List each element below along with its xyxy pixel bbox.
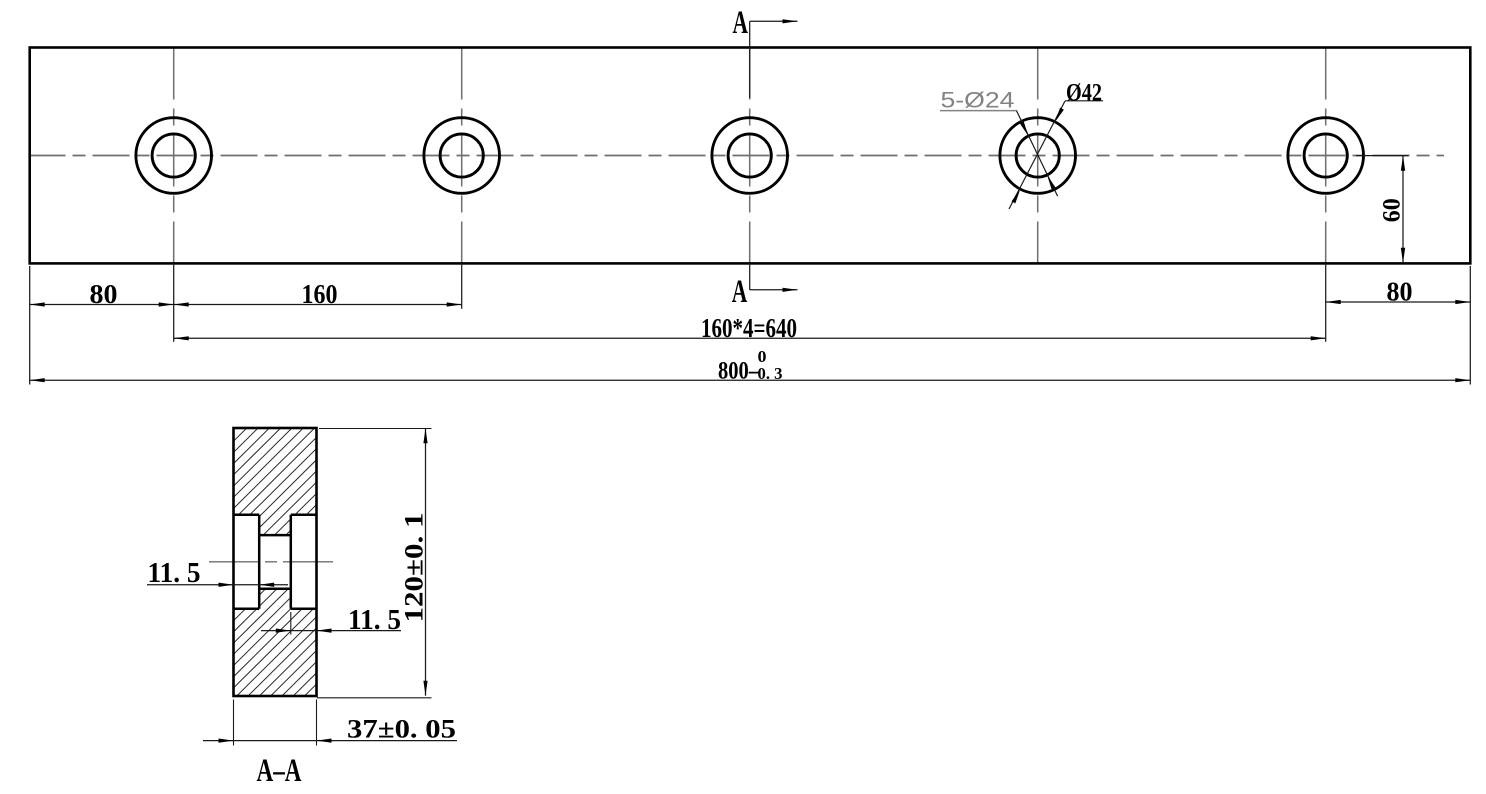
svg-text:80: 80	[1387, 277, 1413, 307]
svg-text:80: 80	[90, 279, 118, 309]
svg-text:Ø42: Ø42	[1066, 80, 1102, 107]
svg-text:11. 5: 11. 5	[348, 605, 401, 636]
svg-text:800–: 800–	[718, 357, 759, 384]
svg-text:160: 160	[302, 279, 338, 309]
svg-text:A–A: A–A	[257, 753, 302, 789]
svg-text:11. 5: 11. 5	[148, 558, 201, 589]
svg-text:A: A	[732, 274, 748, 310]
svg-text:160*4=640: 160*4=640	[701, 313, 797, 343]
svg-text:37±0. 05: 37±0. 05	[347, 715, 456, 744]
svg-text:A: A	[732, 5, 748, 41]
svg-text:5-Ø24: 5-Ø24	[941, 87, 1015, 112]
svg-text:0. 3: 0. 3	[758, 364, 783, 383]
svg-text:60: 60	[1379, 198, 1406, 222]
svg-text:120±0. 1: 120±0. 1	[400, 513, 429, 623]
